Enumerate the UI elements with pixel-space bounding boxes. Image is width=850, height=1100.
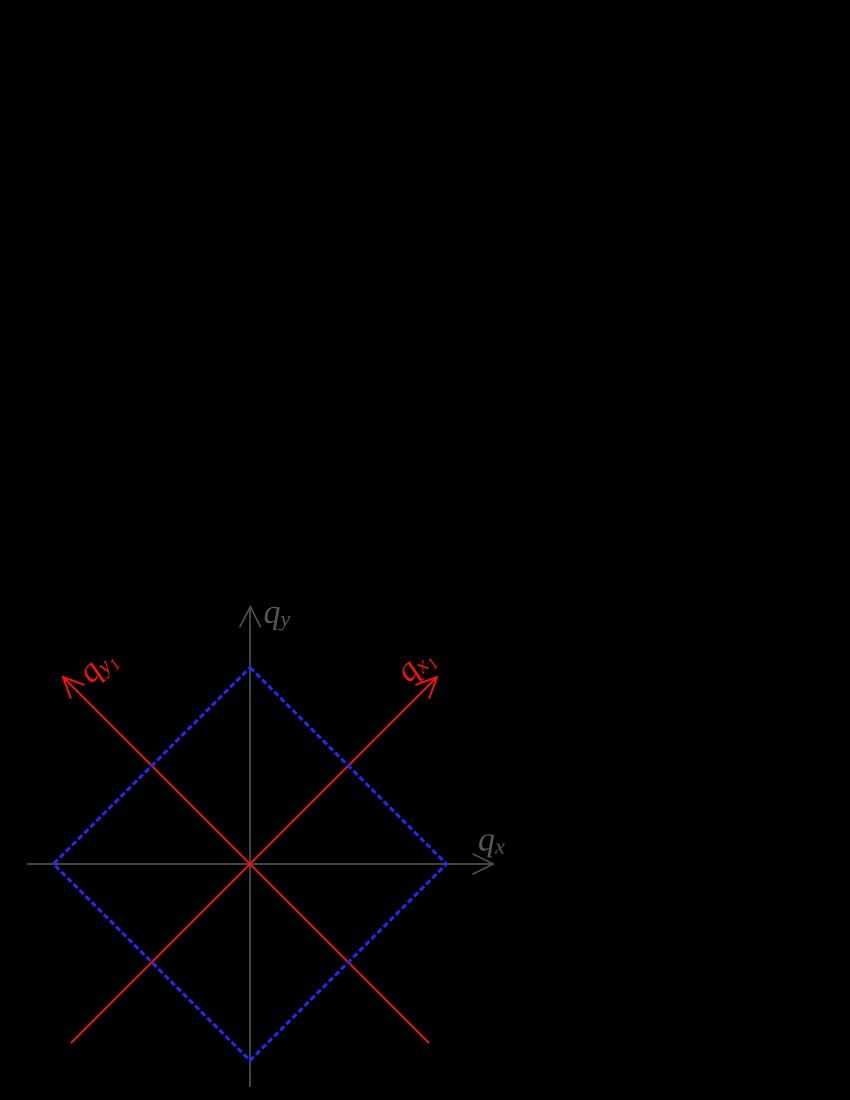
q_y axis arrowhead (open barbs) bbox=[240, 607, 261, 628]
q_x1 arrowhead (open barbs) bbox=[415, 677, 437, 699]
rotated axis q_x1 (red 45-degree line, arrow up-right) bbox=[71, 677, 437, 1043]
rotated axis q_y1 (red 45-degree line, arrow up-left) bbox=[63, 677, 429, 1043]
q_y1 arrowhead (open barbs) bbox=[63, 677, 85, 699]
Brillouin-zone boundary: blue dashed diamond bbox=[54, 668, 447, 1061]
q_x axis arrowhead (open barbs) bbox=[473, 854, 494, 875]
wire: q_y axis (vertical gray axis line) bbox=[249, 607, 251, 1087]
wire: q_x axis (horizontal gray axis line) bbox=[27, 863, 493, 865]
